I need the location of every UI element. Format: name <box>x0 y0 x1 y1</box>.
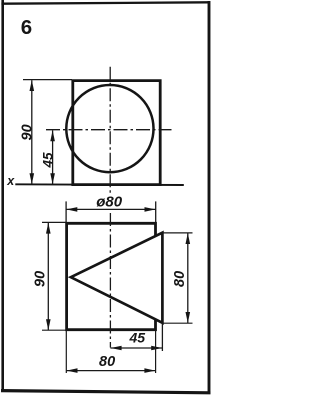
arrow 90 front top <box>46 223 51 234</box>
dimension line 90 (front view) <box>47 223 49 331</box>
extension line right of 45 dim <box>161 323 163 351</box>
arrow 80 bottom right <box>144 368 155 373</box>
arrow O80 right <box>145 207 156 212</box>
top view: vertical centerline <box>109 67 111 193</box>
top view: square (prism) <box>73 81 160 185</box>
border frame bottom <box>1 391 211 393</box>
front view: vertical centerline <box>109 213 111 348</box>
extension line left of bottom 80 dim <box>65 330 67 373</box>
front view: square (cylinder outline) with right edge gaps <box>67 223 156 329</box>
svg-text:x: x <box>6 174 15 188</box>
extension line bottom of right 80 dim <box>162 322 192 324</box>
x axis line <box>15 183 184 186</box>
extension line right of bottom 80 dim <box>155 330 157 373</box>
dimension line O80 <box>66 208 156 210</box>
arrow 45 left <box>111 346 122 351</box>
border frame top <box>1 2 209 3</box>
top view: circle (cylinder O80) <box>66 85 153 172</box>
svg-text:45: 45 <box>129 329 146 345</box>
arrow 45 top <box>50 130 55 141</box>
arrow 90 front bottom <box>46 319 51 330</box>
arrow O80 left <box>66 207 77 212</box>
arrow 80 right bottom <box>186 312 191 323</box>
arrow 80 right top <box>186 233 191 244</box>
extension line top of right 80 dim <box>162 232 192 234</box>
extension line bottom of left 90 dim <box>42 329 66 331</box>
dimension line 80 (right) <box>187 233 189 323</box>
arrow 45 right <box>151 346 162 351</box>
extension line top of 90 dim <box>23 79 72 81</box>
svg-text:6: 6 <box>21 16 32 39</box>
svg-text:80: 80 <box>172 271 188 287</box>
border frame left <box>1 0 4 392</box>
O80 extension line left <box>65 201 67 222</box>
dimension line 90 (top view) <box>31 80 33 184</box>
svg-text:45: 45 <box>40 152 55 169</box>
extension line top of left 90 dim <box>42 221 66 223</box>
svg-text:90: 90 <box>32 271 48 287</box>
svg-text:80: 80 <box>99 354 115 370</box>
arrow 90 bottom <box>30 173 35 184</box>
top view: horizontal centerline <box>46 129 172 131</box>
O80 extension line right <box>155 201 157 222</box>
dimension line 45 (top view) <box>52 130 54 184</box>
arrow 90 top <box>30 80 35 91</box>
svg-text:ø80: ø80 <box>96 193 123 210</box>
dimension line 45 (bottom) <box>110 347 162 349</box>
svg-text:90: 90 <box>20 124 36 140</box>
border frame right <box>208 1 211 394</box>
front view: cone triangle <box>71 233 163 323</box>
arrow 45 bottom <box>50 173 55 184</box>
dimension line 80 (bottom) <box>66 370 155 372</box>
arrow 80 bottom left <box>67 368 78 373</box>
